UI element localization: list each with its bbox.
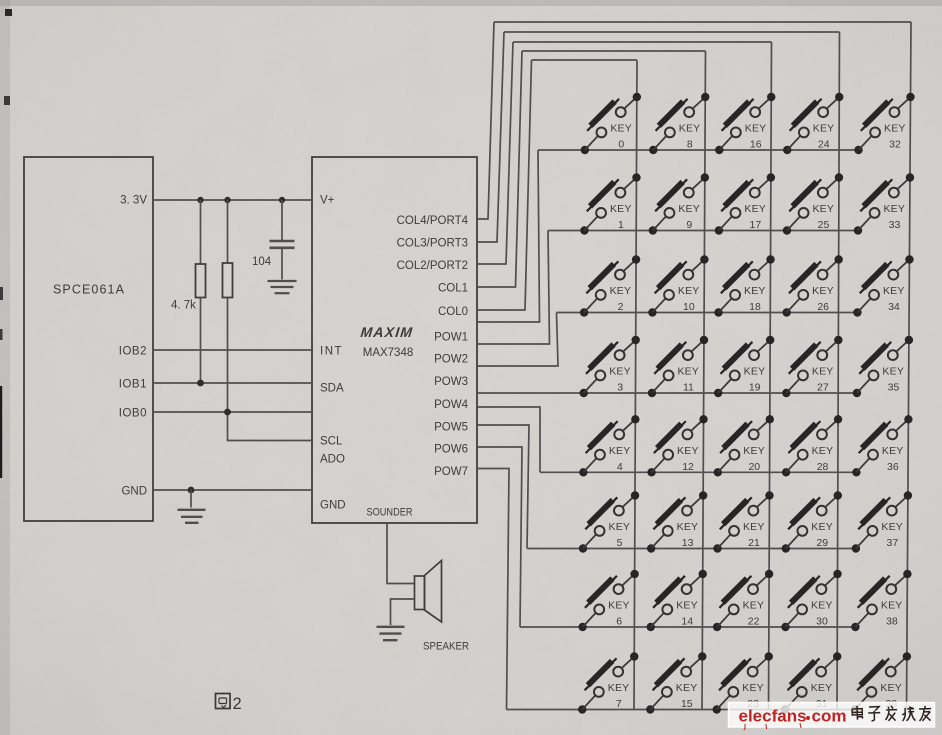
svg-text:3. 3V: 3. 3V xyxy=(120,195,147,207)
svg-text:30: 30 xyxy=(816,616,828,628)
svg-text:KEY: KEY xyxy=(678,203,700,215)
wire POW8 stub to row7 xyxy=(477,469,509,710)
switch KEY 6 xyxy=(578,570,638,631)
wire R2 top lead xyxy=(227,200,229,263)
switch KEY 9 xyxy=(649,173,709,234)
wire row 7 (POW net) xyxy=(507,709,855,711)
switch KEY 33 xyxy=(854,173,914,234)
svg-text:INT: INT xyxy=(320,346,343,358)
switch KEY 7 xyxy=(578,652,638,713)
svg-text:KEY: KEY xyxy=(743,445,765,457)
switch KEY 30 xyxy=(781,570,841,631)
svg-text:COL0: COL0 xyxy=(438,306,468,318)
wire row 6 (POW net) xyxy=(520,626,855,628)
ground symbol (C1) xyxy=(268,280,297,282)
svg-text:12: 12 xyxy=(682,461,694,473)
wire speaker return xyxy=(391,599,415,625)
svg-text:SCL: SCL xyxy=(320,436,343,448)
wire COL0 top run xyxy=(532,59,638,61)
wire COL1 top run xyxy=(522,50,706,52)
svg-text:34: 34 xyxy=(888,301,900,313)
switch KEY 37 xyxy=(852,491,912,552)
svg-text:KEY: KEY xyxy=(883,203,905,215)
svg-text:IOB2: IOB2 xyxy=(119,346,147,358)
svg-text:32: 32 xyxy=(889,139,901,151)
svg-text:KEY: KEY xyxy=(678,285,700,297)
wire row 2 (POW net) xyxy=(557,312,858,314)
switch KEY 27 xyxy=(782,336,842,397)
svg-text:25: 25 xyxy=(818,219,830,231)
svg-text:KEY: KEY xyxy=(609,366,631,378)
scan artifact left edge line xyxy=(0,386,2,478)
wire row 4 (POW net) xyxy=(540,471,856,473)
wire R1 top lead xyxy=(200,200,202,264)
switch KEY 3 xyxy=(580,336,640,397)
svg-text:KEY: KEY xyxy=(812,445,834,457)
node rail-R2 xyxy=(224,197,230,203)
svg-text:KEY: KEY xyxy=(882,445,904,457)
switch KEY 35 xyxy=(853,336,913,397)
svg-text:COL3/PORT3: COL3/PORT3 xyxy=(397,238,468,250)
svg-text:POW1: POW1 xyxy=(434,331,468,343)
wire COL4 top run xyxy=(494,21,911,23)
switch KEY 20 xyxy=(714,415,774,476)
svg-text:26: 26 xyxy=(817,301,829,313)
svg-text:11: 11 xyxy=(683,382,694,394)
svg-text:2: 2 xyxy=(233,695,242,713)
wire column 2 vertical xyxy=(702,51,706,710)
switch KEY 29 xyxy=(782,491,842,552)
svg-text:10: 10 xyxy=(683,301,695,313)
svg-text:KEY: KEY xyxy=(610,285,632,297)
svg-text:1: 1 xyxy=(618,219,624,231)
wire COL0 riser xyxy=(477,60,532,310)
svg-text:37: 37 xyxy=(887,537,899,549)
wire 3.3V rail xyxy=(153,199,312,201)
speaker LS1 horn xyxy=(425,561,442,623)
wire COL3 top run xyxy=(504,31,840,33)
svg-text:4. 7k: 4. 7k xyxy=(171,300,196,312)
svg-text:28: 28 xyxy=(817,461,829,473)
switch KEY 16 xyxy=(715,93,775,154)
svg-text:KEY: KEY xyxy=(811,521,833,533)
wire COL2 top run xyxy=(513,41,772,43)
svg-text:16: 16 xyxy=(750,139,762,151)
svg-text:SPEAKER: SPEAKER xyxy=(423,641,469,653)
svg-text:POW4: POW4 xyxy=(434,399,468,411)
wire SOUNDER down xyxy=(387,523,415,584)
svg-text:SDA: SDA xyxy=(320,383,344,395)
wire COL2/PORT2 riser xyxy=(477,42,513,264)
svg-text:elecfans: elecfans xyxy=(739,707,807,726)
wire COL4/PORT4 riser xyxy=(477,22,494,219)
svg-text:KEY: KEY xyxy=(881,600,903,612)
wire row 5 (POW net) xyxy=(527,548,856,550)
svg-text:KEY: KEY xyxy=(813,123,835,135)
wire row 1 (POW net) xyxy=(548,230,858,232)
svg-text:KEY: KEY xyxy=(610,123,632,135)
wire C1 bottom lead xyxy=(281,249,283,280)
wire C1 top lead xyxy=(281,200,283,240)
svg-text:9: 9 xyxy=(686,219,692,231)
wire GND net xyxy=(153,489,312,491)
wire column 5 vertical xyxy=(907,22,912,710)
svg-text:29: 29 xyxy=(816,537,828,549)
svg-text:36: 36 xyxy=(887,461,899,473)
svg-text:4: 4 xyxy=(617,461,623,473)
wire column 3 vertical xyxy=(769,42,772,710)
switch KEY 2 xyxy=(580,255,640,316)
svg-text:KEY: KEY xyxy=(812,366,834,378)
svg-text:6: 6 xyxy=(616,616,622,628)
svg-text:15: 15 xyxy=(681,698,693,710)
svg-text:KEY: KEY xyxy=(677,521,699,533)
switch KEY 21 xyxy=(713,491,773,552)
svg-text:KEY: KEY xyxy=(812,203,834,215)
switch KEY 24 xyxy=(783,93,843,154)
wire POW7 to row6 xyxy=(477,447,522,627)
svg-text:MAX7348: MAX7348 xyxy=(363,347,414,359)
svg-text:13: 13 xyxy=(682,537,694,549)
switch KEY 25 xyxy=(783,173,843,234)
switch KEY 39 xyxy=(851,652,911,713)
wire R2 bottom lead / SCL riser xyxy=(228,298,313,441)
wire POW3 to row2 xyxy=(477,313,558,367)
svg-text:KEY: KEY xyxy=(676,682,698,694)
wire IOB2-INT xyxy=(153,349,312,351)
svg-text:5: 5 xyxy=(617,537,623,549)
switch KEY 28 xyxy=(782,415,842,476)
svg-text:POW6: POW6 xyxy=(434,444,468,456)
wire COL1 riser xyxy=(477,51,522,287)
svg-text:COL1: COL1 xyxy=(438,283,468,295)
svg-text:COL2/PORT2: COL2/PORT2 xyxy=(397,260,468,272)
wire POW2 to row1 xyxy=(477,231,550,345)
svg-text:KEY: KEY xyxy=(608,682,630,694)
svg-text:KEY: KEY xyxy=(811,682,833,694)
node rail-R1 xyxy=(197,197,203,203)
switch KEY 17 xyxy=(715,173,775,234)
svg-text:KEY: KEY xyxy=(811,600,833,612)
svg-text:POW3: POW3 xyxy=(434,376,468,388)
svg-text:KEY: KEY xyxy=(608,600,630,612)
switch KEY 5 xyxy=(579,491,639,552)
svg-text:KEY: KEY xyxy=(744,366,766,378)
svg-text:KEY: KEY xyxy=(882,366,904,378)
switch KEY 4 xyxy=(579,415,639,476)
switch KEY 14 xyxy=(647,570,707,631)
svg-text:KEY: KEY xyxy=(677,366,699,378)
wire row 3 (POW net) xyxy=(477,392,857,394)
wire COL3/PORT3 riser xyxy=(477,32,504,242)
switch KEY 13 xyxy=(647,491,707,552)
node IOB1-R1 xyxy=(197,380,204,387)
wire row 0 (POW net) xyxy=(538,149,859,151)
caption 图2 xyxy=(216,694,231,709)
switch KEY 36 xyxy=(852,415,912,476)
svg-text:18: 18 xyxy=(749,301,761,313)
svg-text:27: 27 xyxy=(817,382,829,394)
switch KEY 26 xyxy=(782,255,842,316)
svg-text:SOUNDER: SOUNDER xyxy=(367,507,413,519)
svg-text:0: 0 xyxy=(618,139,624,151)
svg-text:38: 38 xyxy=(886,616,898,628)
svg-text:7: 7 xyxy=(616,698,622,710)
svg-text:20: 20 xyxy=(748,461,760,473)
node GND junction xyxy=(188,487,195,494)
svg-text:KEY: KEY xyxy=(812,285,834,297)
switch KEY 0 xyxy=(581,93,641,154)
resistor R1 4.7k xyxy=(196,264,206,298)
svg-text:104: 104 xyxy=(252,256,272,268)
switch KEY 23 xyxy=(713,652,773,713)
elecfans.com watermark xyxy=(729,703,935,731)
svg-text:35: 35 xyxy=(888,382,900,394)
svg-text:POW7: POW7 xyxy=(434,466,468,478)
switch KEY 11 xyxy=(648,336,708,397)
switch KEY 34 xyxy=(853,255,913,316)
svg-text:GND: GND xyxy=(320,500,346,512)
wire column 4 vertical xyxy=(837,32,840,710)
svg-text:KEY: KEY xyxy=(609,445,631,457)
wire R1 bottom lead xyxy=(200,298,202,384)
speaker LS1 driver box xyxy=(415,576,425,610)
svg-text:V+: V+ xyxy=(320,195,335,207)
svg-text:SPCE061A: SPCE061A xyxy=(53,283,125,297)
svg-text:com: com xyxy=(812,707,847,726)
switch KEY 38 xyxy=(851,570,911,631)
ground symbol (main) xyxy=(178,509,206,511)
svg-text:19: 19 xyxy=(749,382,761,394)
switch KEY 10 xyxy=(648,255,708,316)
svg-text:KEY: KEY xyxy=(883,285,905,297)
svg-text:ADO: ADO xyxy=(320,454,345,466)
svg-text:IOB0: IOB0 xyxy=(119,408,147,420)
svg-text:KEY: KEY xyxy=(610,203,632,215)
switch KEY 8 xyxy=(649,93,709,154)
switch KEY 22 xyxy=(713,570,773,631)
switch KEY 31 xyxy=(781,652,841,713)
IC SPCE061A (MCU box) xyxy=(24,157,153,521)
svg-text:POW5: POW5 xyxy=(434,421,468,433)
resistor R2 4.7k xyxy=(223,263,233,298)
switch KEY 15 xyxy=(646,652,706,713)
switch KEY 18 xyxy=(714,255,774,316)
svg-text:3: 3 xyxy=(617,382,623,394)
svg-text:POW2: POW2 xyxy=(434,354,468,366)
svg-text:KEY: KEY xyxy=(744,285,766,297)
wire POW6 to row5 xyxy=(477,425,529,549)
svg-text:KEY: KEY xyxy=(677,445,699,457)
svg-text:33: 33 xyxy=(889,219,901,231)
ground symbol (speaker) xyxy=(377,626,405,628)
wire GND stub down xyxy=(190,490,192,508)
switch KEY 1 xyxy=(580,173,640,234)
svg-text:MAXIM: MAXIM xyxy=(360,324,414,340)
svg-text:KEY: KEY xyxy=(881,521,903,533)
svg-text:KEY: KEY xyxy=(884,123,906,135)
svg-text:COL4/PORT4: COL4/PORT4 xyxy=(397,215,469,227)
svg-text:KEY: KEY xyxy=(676,600,698,612)
wire IOB0 xyxy=(153,411,312,413)
switch KEY 32 xyxy=(854,93,914,154)
svg-text:GND: GND xyxy=(121,486,147,498)
svg-text:21: 21 xyxy=(748,537,760,549)
svg-text:KEY: KEY xyxy=(744,203,766,215)
wire POW1 to row0 xyxy=(477,150,540,322)
wire IOB1-SDA xyxy=(153,382,312,384)
svg-text:KEY: KEY xyxy=(608,521,630,533)
node IOB0-R2 xyxy=(224,409,231,416)
wire column 1 vertical xyxy=(634,60,637,710)
svg-text:22: 22 xyxy=(748,616,760,628)
svg-text:24: 24 xyxy=(818,139,830,151)
svg-text:KEY: KEY xyxy=(880,682,902,694)
wire POW5 to row4 xyxy=(477,407,540,472)
svg-text:KEY: KEY xyxy=(742,682,764,694)
IC U1 MAX7348 (keyscan box) xyxy=(312,157,477,523)
svg-text:KEY: KEY xyxy=(743,521,765,533)
scan artifact top-left specks xyxy=(5,9,12,16)
svg-text:17: 17 xyxy=(750,219,762,231)
svg-text:KEY: KEY xyxy=(679,123,701,135)
switch KEY 19 xyxy=(714,336,774,397)
svg-text:KEY: KEY xyxy=(745,123,767,135)
svg-text:IOB1: IOB1 xyxy=(119,379,147,391)
svg-text:2: 2 xyxy=(618,301,624,313)
svg-text:8: 8 xyxy=(687,139,693,151)
svg-text:14: 14 xyxy=(681,616,693,628)
capacitor C1 104 xyxy=(270,240,295,243)
switch KEY 12 xyxy=(647,415,707,476)
node rail-C1 xyxy=(279,197,285,203)
svg-text:KEY: KEY xyxy=(743,600,765,612)
